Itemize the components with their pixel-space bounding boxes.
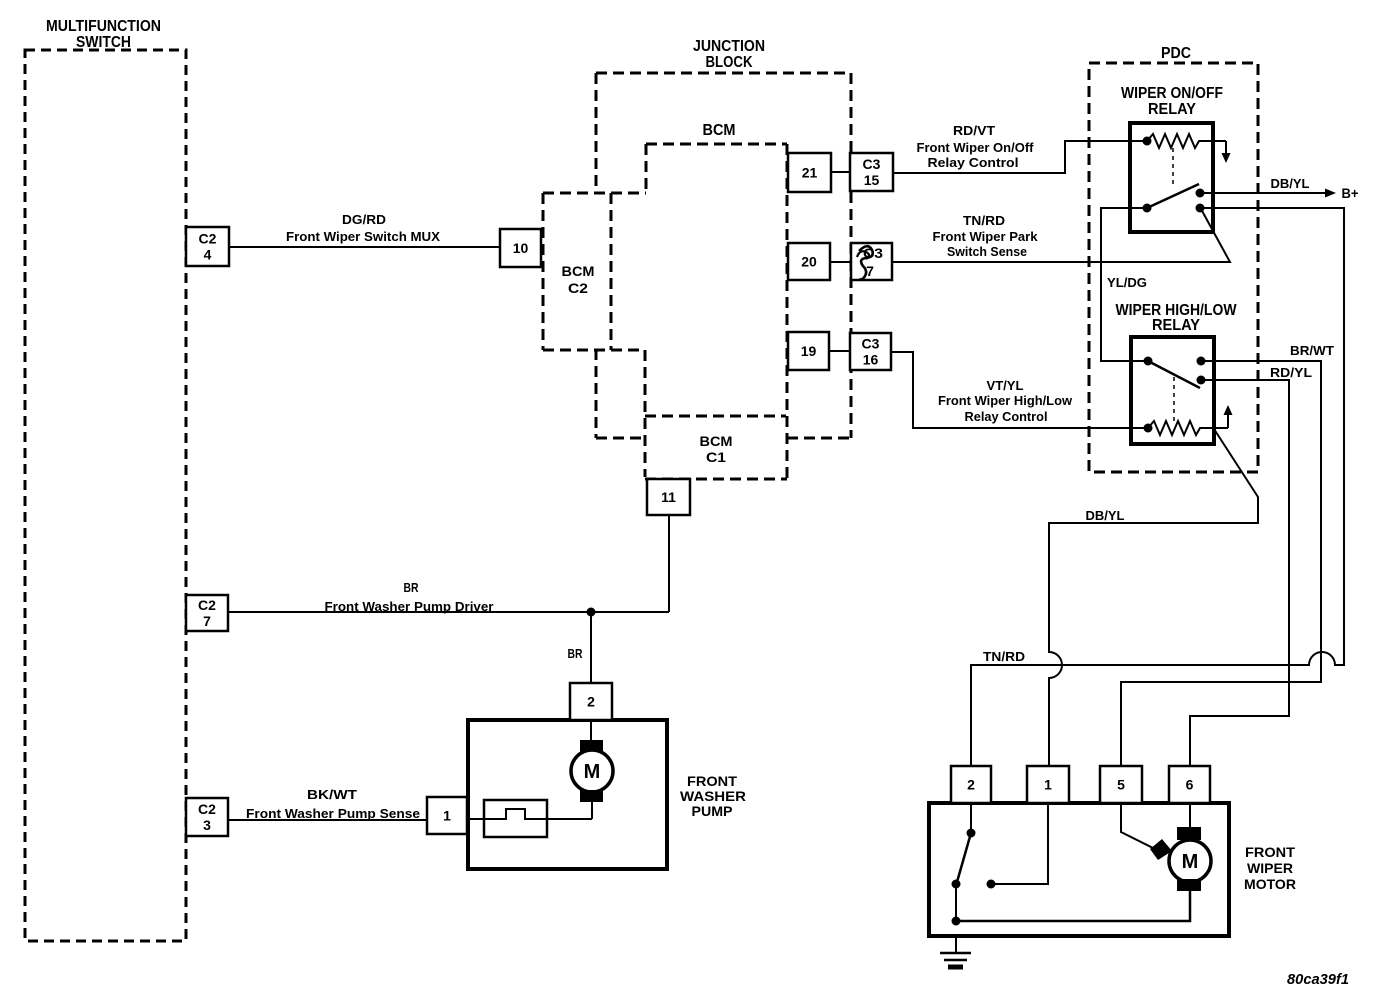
svg-text:FRONT: FRONT xyxy=(687,773,737,789)
label TN/RD Front Wiper Park Switch Sense xyxy=(933,213,1039,259)
svg-text:FRONT: FRONT xyxy=(1245,844,1295,860)
BCM C1 label xyxy=(700,433,733,465)
wiper motor pin 1 contact stub xyxy=(987,803,1049,889)
front washer pump label xyxy=(680,773,746,819)
svg-text:BCM: BCM xyxy=(700,433,733,449)
high/low relay coil xyxy=(1144,421,1229,435)
svg-text:YL/DG: YL/DG xyxy=(1107,275,1147,290)
wire DG/RD C2-4 to pin 10 xyxy=(229,246,500,248)
wiper motor M2 xyxy=(1169,803,1211,891)
svg-text:DG/RD: DG/RD xyxy=(342,212,386,227)
svg-text:WIPER: WIPER xyxy=(1247,860,1293,876)
wiper motor park switch xyxy=(952,803,976,926)
label BR Front Washer Pump Driver xyxy=(325,580,494,614)
svg-text:6: 6 xyxy=(1186,777,1194,793)
svg-text:1: 1 xyxy=(1044,777,1052,793)
svg-text:M: M xyxy=(1182,851,1199,873)
high/low relay armature dashed link xyxy=(1173,377,1175,425)
connector pin 19 xyxy=(788,332,829,370)
svg-text:4: 4 xyxy=(204,247,212,263)
BCM module outline xyxy=(646,144,787,479)
svg-text:DB/YL: DB/YL xyxy=(1086,508,1125,523)
svg-text:BLOCK: BLOCK xyxy=(706,54,753,71)
svg-text:VT/YL: VT/YL xyxy=(987,378,1024,393)
high/low relay switch xyxy=(1144,357,1206,389)
wire BK/WT C2-3 to washer pump pin 1 xyxy=(228,819,427,821)
wiper on/off relay box U1 xyxy=(1130,123,1213,232)
junction block label xyxy=(693,38,765,71)
svg-text:BR: BR xyxy=(404,580,419,595)
svg-text:B+: B+ xyxy=(1342,185,1359,201)
wire pin 19 to C3-16 xyxy=(829,350,850,352)
svg-text:C3: C3 xyxy=(863,156,881,172)
svg-text:16: 16 xyxy=(863,352,879,368)
wire DB/YL high/low coil to wiper motor pin 1 xyxy=(1049,429,1258,766)
label DG/RD Front Wiper Switch MUX xyxy=(286,212,440,244)
svg-text:PDC: PDC xyxy=(1161,45,1191,62)
svg-text:15: 15 xyxy=(864,172,880,188)
label BK/WT Front Washer Pump Sense xyxy=(246,787,420,821)
wiper high/low relay label xyxy=(1116,302,1238,334)
connector pin 20 xyxy=(788,243,830,280)
svg-text:Front Wiper Park: Front Wiper Park xyxy=(933,229,1039,244)
wiper on/off relay label xyxy=(1121,85,1223,118)
svg-text:Front Washer Pump Driver: Front Washer Pump Driver xyxy=(325,599,494,614)
svg-text:C2: C2 xyxy=(198,801,216,817)
svg-text:19: 19 xyxy=(801,343,817,359)
svg-text:21: 21 xyxy=(802,165,818,181)
connector pin 10 xyxy=(500,229,541,267)
multifunction switch xyxy=(25,50,186,941)
svg-text:C2: C2 xyxy=(198,597,216,613)
wire BR C2-7 to pin 11 and washer pump xyxy=(228,515,669,683)
svg-text:2: 2 xyxy=(587,694,595,710)
connector C3 pin 7 with scribble xyxy=(851,243,892,280)
arrowhead B+ xyxy=(1325,189,1336,198)
BCM C1 connector xyxy=(645,416,787,479)
svg-text:RELAY: RELAY xyxy=(1148,101,1196,118)
svg-text:M: M xyxy=(584,761,601,783)
svg-text:SWITCH: SWITCH xyxy=(76,34,131,51)
svg-text:C2: C2 xyxy=(199,231,217,247)
svg-text:Relay Control: Relay Control xyxy=(928,155,1019,170)
svg-text:5: 5 xyxy=(1117,777,1125,793)
svg-text:11: 11 xyxy=(661,489,676,505)
svg-text:Front Wiper On/Off: Front Wiper On/Off xyxy=(917,140,1035,155)
svg-text:JUNCTION: JUNCTION xyxy=(693,38,765,55)
svg-text:3: 3 xyxy=(203,817,211,833)
connector C3 pin 15 xyxy=(850,153,893,191)
wiper motor pin 5 brush wire xyxy=(1121,803,1163,853)
wire TN/RD C3-7 park switch sense xyxy=(892,209,1230,262)
front washer pump box xyxy=(468,720,667,869)
svg-text:1: 1 xyxy=(443,808,451,824)
svg-text:RD/YL: RD/YL xyxy=(1270,365,1312,380)
svg-text:BCM: BCM xyxy=(562,263,595,279)
wire DB/YL to B+ xyxy=(1200,192,1326,194)
wire TN/RD relay contact to wiper motor pin 2 xyxy=(971,208,1344,766)
high/low coil arrow up xyxy=(1224,405,1233,428)
on/off relay coil xyxy=(1143,134,1227,148)
svg-text:10: 10 xyxy=(513,240,529,256)
wire YL/DG on/off pivot to high/low pivot xyxy=(1101,208,1148,361)
connector pin 11 xyxy=(647,479,690,515)
svg-text:Front Wiper High/Low: Front Wiper High/Low xyxy=(938,393,1073,408)
connector pin 21 xyxy=(788,153,831,192)
wire RD/VT C3-15 to on/off relay coil xyxy=(893,141,1147,173)
wire pin 20 to C3-7 xyxy=(830,261,851,263)
wiper motor pin 1 connector xyxy=(1027,766,1069,803)
svg-text:BR/WT: BR/WT xyxy=(1290,343,1334,358)
wire BR/WT high/low to wiper motor pin 5 xyxy=(1121,361,1321,766)
washer pump pin 2 connector xyxy=(570,683,612,720)
svg-text:Front Wiper Switch MUX: Front Wiper Switch MUX xyxy=(286,229,440,244)
svg-text:MOTOR: MOTOR xyxy=(1244,876,1296,892)
svg-text:WASHER: WASHER xyxy=(680,788,746,804)
label VT/YL Front Wiper High/Low Relay Control xyxy=(938,378,1073,424)
svg-text:BR: BR xyxy=(568,646,583,661)
on/off relay armature dashed link xyxy=(1172,148,1174,184)
washer pump motor M1 xyxy=(571,720,613,819)
svg-text:C1: C1 xyxy=(706,449,726,465)
BCM C2 connector xyxy=(543,193,646,477)
svg-text:MULTIFUNCTION: MULTIFUNCTION xyxy=(46,18,161,35)
svg-text:RELAY: RELAY xyxy=(1152,317,1200,334)
svg-text:C3: C3 xyxy=(862,336,880,352)
wiper motor pin 2 connector xyxy=(951,766,991,803)
connector C2 pin 3 xyxy=(186,798,228,836)
svg-text:2: 2 xyxy=(967,777,975,793)
wire RD/YL high/low to wiper motor pin 6 xyxy=(1190,380,1289,766)
svg-text:TN/RD: TN/RD xyxy=(983,649,1025,664)
connector C2 pin 4 xyxy=(186,227,229,266)
svg-text:PUMP: PUMP xyxy=(692,803,733,819)
svg-text:80ca39f1: 80ca39f1 xyxy=(1287,971,1349,988)
on/off coil arrow down xyxy=(1222,141,1231,163)
connector C3 pin 16 xyxy=(850,333,891,370)
svg-text:20: 20 xyxy=(801,254,817,270)
svg-text:C2: C2 xyxy=(568,280,588,296)
svg-text:Relay Control: Relay Control xyxy=(965,409,1048,424)
washer pump pressure switch xyxy=(467,800,592,837)
wire VT/YL C3-16 to high/low relay coil xyxy=(891,352,1147,428)
svg-text:WIPER ON/OFF: WIPER ON/OFF xyxy=(1121,85,1223,102)
wiper motor brush xyxy=(1150,839,1172,860)
front wiper motor box xyxy=(929,803,1229,936)
wire pin 21 to C3-15 xyxy=(831,171,850,173)
on/off relay switch xyxy=(1143,184,1205,213)
wiper motor bottom wire xyxy=(956,890,1190,921)
wiper motor pin 6 connector xyxy=(1169,766,1210,803)
multifunction switch label xyxy=(46,18,161,51)
label RD/VT Front Wiper On/Off Relay Control xyxy=(917,123,1035,170)
svg-text:RD/VT: RD/VT xyxy=(953,123,995,138)
svg-text:DB/YL: DB/YL xyxy=(1271,176,1310,191)
svg-text:Front Washer Pump Sense: Front Washer Pump Sense xyxy=(246,806,420,821)
svg-text:BK/WT: BK/WT xyxy=(307,787,357,802)
connector C2 pin 7 xyxy=(186,595,228,631)
front wiper motor label xyxy=(1244,844,1296,892)
junction block xyxy=(596,73,851,438)
BCM C2 label xyxy=(562,263,595,296)
PDC xyxy=(1089,63,1258,472)
svg-text:TN/RD: TN/RD xyxy=(963,213,1005,228)
svg-text:7: 7 xyxy=(203,613,211,629)
svg-text:BCM: BCM xyxy=(703,122,736,139)
wiper motor pin 5 connector xyxy=(1100,766,1142,803)
svg-text:Switch Sense: Switch Sense xyxy=(947,244,1027,259)
washer pump pin 1 connector xyxy=(427,797,467,834)
wiper high/low relay box U2 xyxy=(1131,337,1214,444)
junction dot BR xyxy=(587,608,596,617)
ground xyxy=(940,936,971,967)
